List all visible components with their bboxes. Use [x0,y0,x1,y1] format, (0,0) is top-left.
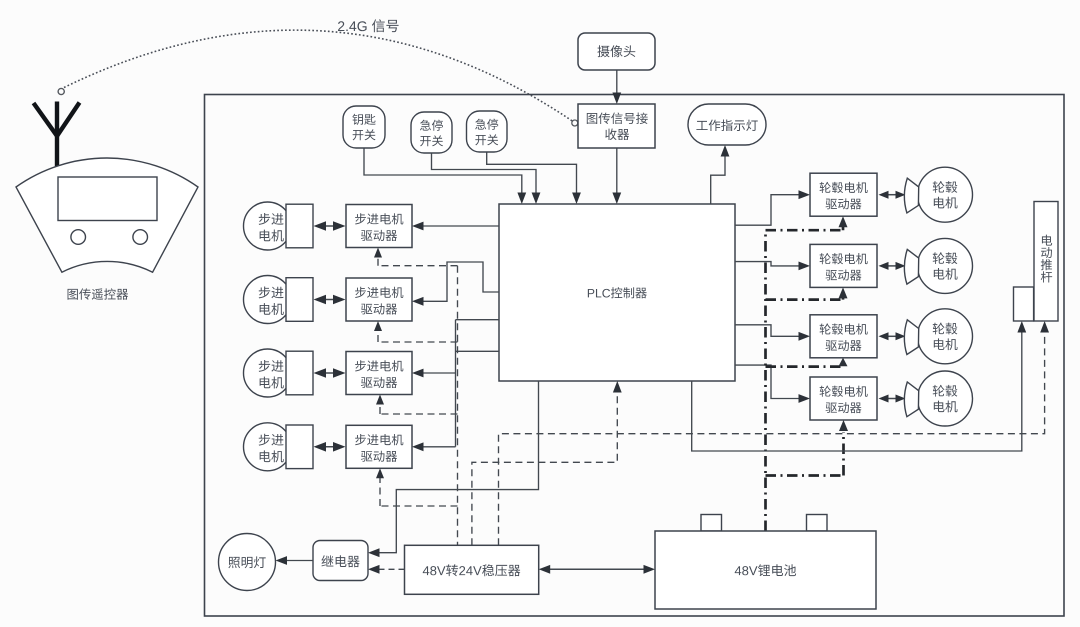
label 急停 2 [475,119,498,130]
wire PLC to hub driver 2 [735,262,801,266]
antenna tip node circle [58,88,64,94]
label 电机 motor 4 [934,401,958,413]
arrowhead into hub driver 2 [799,262,811,271]
bidirectional wire hub driver-motor 2 [884,265,900,267]
label 驱动器 hub row 1 [826,198,862,209]
box push rod driver block [1014,287,1034,321]
hub motor 2 circle [918,238,973,293]
hub motor 1 horn [904,178,918,213]
antenna left arm [34,103,58,136]
48V branch to hub driver 3 [766,365,844,368]
label 步进 row 3 [259,360,284,372]
arrowhead into PLC top (e-stop 1) [532,193,541,205]
vertical bus for stepper drivers 3-4 [455,320,457,447]
label 步进 row 1 [259,213,284,225]
dashed 24V trunk A [457,266,459,546]
arrowhead right row 2 [333,295,346,305]
box 48V转24V稳压器 (voltage regulator) [405,545,539,594]
wire PLC to relay [378,381,539,553]
arrowhead 24V into stepper driver 2 bottom [374,321,382,331]
48V branch to hub driver 2 [766,298,844,300]
remote button right [133,230,148,245]
label 48V转24V稳压器 [423,564,521,576]
stepper motor M3 circle [244,349,292,397]
wire bus to stepper driver 4 [422,446,456,448]
arrowhead left hub 4 [879,395,889,403]
hub motor 4 circle [918,371,973,426]
hub motor 3 horn [904,320,918,355]
label 开关 2 [475,134,498,145]
remote button left [71,230,86,245]
label 钥匙 [352,114,375,125]
label 电机 row 1 [260,230,284,242]
arrowhead 24V into stepper driver 4 bottom [376,468,384,478]
label 步进 row 4 [259,434,284,446]
arrowhead into battery left [644,565,656,574]
arrowhead 24V into stepper driver 3 bottom [376,395,384,405]
label PLC控制器 [588,287,647,298]
box 轮毂电机驱动器 2 (hub motor driver) [810,244,877,287]
arrowhead into push rod driver block bottom [1017,321,1026,333]
label 电机 row 3 [260,377,284,389]
label 步进 row 2 [259,286,284,298]
lamp 照明灯 circle [219,534,276,591]
label 驱动器 row 3 [361,377,397,388]
arrowhead right hub 3 [896,332,906,340]
arrowhead into PLC top (key switch) [517,193,526,205]
arrowhead right hub 2 [896,262,906,270]
bidirectional wire hub driver-motor 3 [884,335,900,337]
dashed branch to stepper driver 4 [380,478,458,506]
arrowhead left row 3 [314,368,327,378]
dashed branch to stepper driver 1 [378,258,458,266]
arrowhead left row 2 [314,295,327,305]
label 2.4G 信号 [338,19,399,32]
label 驱动器 row 1 [361,230,397,241]
stepper motor M1 circle [244,202,292,250]
box 继电器 (relay) [313,541,368,581]
box 图传信号接收器 (video signal receiver) [578,104,655,148]
stepper motor M3 shaft block [286,351,313,395]
system boundary frame [205,95,1065,617]
box 步进电机驱动器 4 (stepper driver) [346,425,412,468]
label 48V锂电池 [735,564,796,576]
label 图传信号接 line1 [587,113,648,125]
arrowhead into work light bottom [721,145,730,157]
arrowhead into hub driver 3 [799,332,811,341]
remote screen [58,177,157,221]
wire PLC to push rod driver block [692,332,1022,451]
battery terminal tab right [807,515,828,532]
label 电机 row 4 [260,450,284,462]
label 电动推杆 vertical [1041,235,1052,283]
arrowhead right row 3 [333,368,346,378]
label 步进电机 row 3 [355,360,403,371]
wire PLC to stepper driver 2 (stepped) [422,262,500,301]
wire PLC to work light [711,156,725,204]
arrowhead 48V into hub driver 3 [839,358,848,367]
box 轮毂电机驱动器 4 (hub motor driver) [810,377,877,420]
arrowhead right row 4 [333,442,346,452]
arrowhead dashed into relay [368,565,380,574]
wire PLC tap lower to bus [456,350,500,352]
arc end node circle at receiver [572,120,578,126]
48V branch to hub driver 1 [766,227,844,230]
arrowhead 24V into PLC bottom [613,381,622,393]
stepper motor M1 shaft block [286,204,313,248]
box 轮毂电机驱动器 3 (hub motor driver) [810,315,877,358]
box 轮毂电机驱动器 1 (hub motor driver) [810,173,877,216]
wire e-stop 1 to PLC [432,153,537,193]
box PLC控制器 (PLC controller) [499,204,735,381]
arrowhead right hub 1 [896,191,906,199]
box 工作指示灯 (work indicator light) [688,104,766,145]
label 工作指示灯 [696,120,757,132]
label 急停 1 [420,120,443,131]
arrowhead into lamp [276,556,288,565]
box 电动推杆 (electric push rod) [1034,202,1058,322]
arrowhead into relay right edge [368,548,380,557]
dashed wire regulator to relay [379,568,405,570]
arrowhead right hub 4 [896,395,906,403]
arrowhead left row 1 [314,221,327,231]
arrowhead into stepper driver 3 [412,369,424,378]
label 驱动器 row 4 [361,451,397,462]
hub motor 2 horn [904,249,918,284]
remote controller antenna mast [55,102,59,167]
label 驱动器 row 2 [361,303,397,314]
label 步进电机 row 2 [355,287,403,298]
arrowhead into stepper driver 4 [412,442,424,451]
wire e-stop 2 to PLC [487,152,577,193]
box 步进电机驱动器 3 (stepper driver) [346,352,412,395]
dashed 24V trunk B to PLC [472,392,617,546]
hub motor 3 circle [918,309,973,364]
dashed 24V trunk C to push rod [499,332,1045,546]
label 轮毂 motor 1 [933,181,958,193]
label 电机 motor 2 [934,268,958,280]
wire PLC to hub driver 3 [735,325,801,337]
arrowhead into regulator right [539,565,551,574]
stepper motor M4 shaft block [286,425,313,469]
box 摄像头 (camera) [578,33,655,70]
label 照明灯 [228,556,265,568]
wire camera to receiver [616,70,618,94]
arrowhead 24V into push rod bottom [1040,321,1049,333]
arrowhead left hub 1 [879,191,889,199]
arrowhead into stepper driver 1 [412,222,424,231]
arrowhead 24V into stepper driver 1 bottom [374,248,382,258]
arrowhead right row 1 [333,221,346,231]
label 开关 [353,129,376,140]
48V branch to hub driver 4 [766,432,844,476]
wire PLC to stepper driver 1 [422,225,500,227]
label 步进电机 row 1 [355,213,403,224]
battery terminal tab left [701,515,722,532]
label 轮毂电机 row 1 [820,182,868,193]
wire bus to stepper driver 3 [422,372,456,374]
bidirectional wire motor-driver row 3 [317,372,343,374]
label 电机 motor 3 [934,338,958,350]
bidirectional wire hub driver-motor 1 [884,194,900,196]
bidirectional wire motor-driver row 1 [317,225,343,227]
remote controller body (fan shape) [16,158,198,272]
label 继电器 [321,555,359,567]
arrowhead into receiver top [612,93,621,105]
label 轮毂 motor 4 [933,385,958,397]
dashed branch to stepper driver 2 [378,331,458,342]
bidirectional wire hub driver-motor 4 [884,398,900,400]
box 急停开关 2 [467,111,508,152]
wire PLC to hub driver 4 [735,365,801,398]
arrowhead left hub 2 [879,262,889,270]
arrowhead into hub driver 4 [799,394,811,403]
stepper motor M2 circle [244,276,292,324]
label 步进电机 row 4 [355,434,403,445]
arrowhead into stepper driver 2 [412,297,424,306]
label 驱动器 hub row 3 [826,340,862,351]
label 开关 1 [420,135,443,146]
antenna right arm [57,103,80,137]
box 步进电机驱动器 2 (stepper driver) [346,278,412,321]
hub motor 1 circle [918,167,973,222]
box 48V锂电池 (48V lithium battery) [655,531,876,609]
dashed branch to stepper driver 3 [380,405,458,415]
wire receiver to PLC [616,148,618,193]
stepper motor M4 circle [244,423,292,471]
box 钥匙开关 (key switch) [343,106,385,148]
arrowhead 48V into hub driver 1 [839,216,848,227]
bidirectional wire regulator-battery [549,568,645,570]
arrowhead into PLC top (from receiver) [612,193,621,205]
label 摄像头 [597,45,635,57]
box 急停开关 1 [411,112,452,153]
2.4G wireless dotted arc wire [64,30,572,121]
label 电机 motor 1 [934,197,958,209]
label 驱动器 hub row 4 [826,402,862,413]
label 轮毂 motor 3 [933,323,958,335]
label 轮毂电机 row 2 [820,253,868,264]
wire PLC tap upper to bus [456,319,500,321]
48V dash-dot trunk from battery [764,230,767,531]
arrowhead 48V into hub driver 4 [839,420,848,431]
label 轮毂 motor 2 [933,252,958,264]
bidirectional wire motor-driver row 2 [317,299,343,301]
stepper motor M2 shaft block [286,278,313,322]
label 轮毂电机 row 3 [820,323,868,334]
arrowhead left hub 3 [879,332,889,340]
arrowhead left row 4 [314,442,327,452]
box 步进电机驱动器 1 (stepper driver) [346,205,412,248]
bidirectional wire motor-driver row 4 [317,446,343,448]
wire relay to lamp [286,560,313,562]
label 驱动器 hub row 2 [826,270,862,281]
wire key switch to PLC [364,148,522,193]
label 电机 row 2 [260,303,284,315]
arrowhead 48V into hub driver 2 [839,287,848,298]
label 轮毂电机 row 4 [820,386,868,397]
wire PLC to hub driver 1 [735,195,801,226]
label 图传遥控器 [68,288,129,299]
arrowhead into hub driver 1 [799,190,811,199]
hub motor 4 horn [904,382,918,417]
label 收器 line2 [605,129,629,141]
arrowhead into PLC top (e-stop 2) [572,193,581,205]
